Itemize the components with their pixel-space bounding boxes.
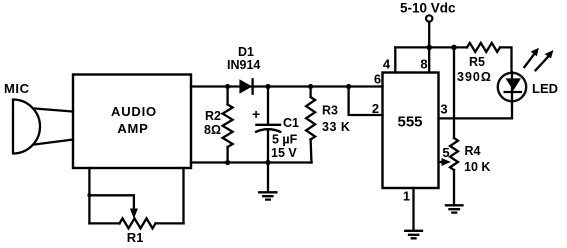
LED emission arrow 2 [536, 50, 554, 70]
wire pin 5 wiper [439, 161, 445, 163]
svg-text:D1: D1 [238, 45, 254, 59]
wire R5 to LED [500, 47, 512, 72]
svg-text:8Ω: 8Ω [204, 123, 221, 137]
pin 8 label [420, 57, 427, 72]
svg-text:5: 5 [442, 145, 449, 160]
pin 5 label [442, 145, 449, 160]
svg-text:1: 1 [403, 189, 410, 204]
svg-text:R1: R1 [127, 230, 144, 245]
wire amp output to 555 pin 6 [191, 85, 383, 87]
node R4 rail junction [451, 45, 457, 51]
capacitor C1 [252, 87, 299, 163]
wire feedback right stub [182, 168, 184, 223]
wire feedback bottom left [89, 222, 119, 224]
svg-text:6: 6 [374, 72, 381, 87]
svg-text:4: 4 [383, 57, 391, 72]
svg-text:R2: R2 [205, 109, 221, 123]
op-amp U1 555 timer [383, 73, 439, 189]
node R2 bottom junction [225, 160, 230, 165]
svg-text:MIC: MIC [4, 81, 30, 96]
ground (mid rail) [259, 163, 276, 200]
svg-text:+: + [252, 106, 260, 122]
node supply junction [426, 45, 432, 51]
node C1 top junction [265, 84, 270, 89]
wire to 555 pin 2 [349, 87, 383, 116]
svg-text:555: 555 [397, 114, 422, 131]
svg-text:33 K: 33 K [322, 120, 350, 134]
label 5-10 Vdc [400, 0, 456, 15]
svg-text:8: 8 [420, 57, 427, 72]
supply terminal [426, 15, 432, 21]
LED emission arrow 1 [524, 48, 539, 67]
svg-text:15 V: 15 V [271, 146, 297, 160]
wire feedback left stub [88, 168, 90, 223]
wire supply to pin 8 [428, 22, 430, 73]
svg-text:R5: R5 [469, 55, 485, 69]
potentiometer R4 [450, 138, 490, 174]
microphone MIC body [13, 100, 40, 154]
svg-text:2: 2 [372, 101, 379, 116]
svg-text:10 K: 10 K [464, 160, 490, 174]
wire LED to pin 3 [439, 102, 513, 118]
svg-text:R4: R4 [465, 144, 481, 158]
svg-text:390Ω: 390Ω [457, 70, 492, 84]
potentiometer R1 [120, 218, 156, 245]
resistor R3 [306, 87, 350, 163]
diode D1 [227, 45, 260, 94]
label MIC [4, 81, 30, 96]
svg-text:C1: C1 [283, 116, 299, 130]
svg-text:5 µF: 5 µF [272, 133, 298, 147]
svg-text:AMP: AMP [117, 121, 148, 136]
wire pin 4 stub [394, 47, 396, 72]
node R2 top junction [225, 84, 230, 89]
svg-text:AUDIO: AUDIO [111, 104, 157, 119]
wire R4 to ground [453, 170, 455, 205]
node R3 top junction [308, 84, 313, 89]
R1 wiper arrowhead [130, 209, 138, 219]
pin 6 label [374, 72, 381, 87]
pin 2 label [372, 101, 379, 116]
node C1 bottom junction [265, 160, 270, 165]
wire rail to R4 [453, 47, 455, 138]
svg-text:5-10 Vdc: 5-10 Vdc [400, 0, 456, 15]
wire mic to amp top [35, 109, 74, 112]
wire mic to amp bottom [35, 140, 74, 145]
LED D2 [498, 72, 558, 102]
ground (pin 1) [405, 231, 422, 239]
svg-text:IN914: IN914 [227, 58, 260, 72]
svg-text:R3: R3 [322, 104, 338, 118]
svg-text:LED: LED [532, 81, 558, 96]
pin 1 label [403, 189, 410, 204]
wire R1 wiper [87, 193, 133, 210]
resistor R2 [204, 87, 233, 163]
svg-text:3: 3 [440, 102, 447, 117]
pin 3 label [440, 102, 447, 117]
wire V+ rail [395, 46, 467, 48]
wire feedback bottom right [156, 222, 184, 224]
resistor R5 [457, 43, 500, 84]
ground (R4) [446, 205, 463, 212]
pin 5 wiper arrowhead [442, 158, 451, 166]
audio amp block [73, 75, 191, 169]
node pin2 branch junction [346, 84, 351, 89]
wire pin 1 to ground [412, 188, 414, 230]
wire ground rail (amp to R3 bottom) [191, 161, 312, 163]
pin 4 label [383, 57, 391, 72]
